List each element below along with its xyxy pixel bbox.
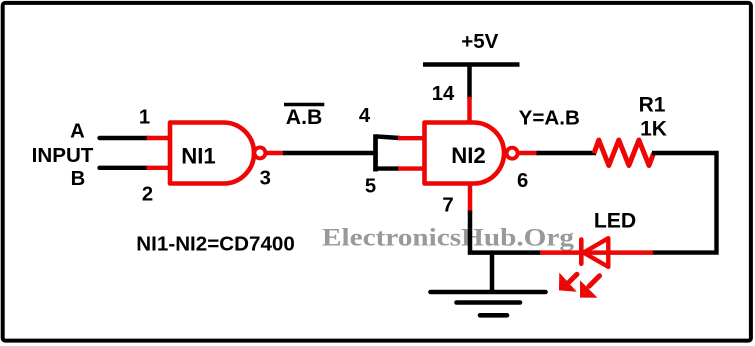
power rail bar — [423, 62, 520, 67]
wire input A to NI1 pin 1 — [100, 136, 173, 140]
pin label 5 — [365, 176, 376, 198]
wire NI1 output to fork — [266, 151, 378, 155]
svg-text:1: 1 — [139, 107, 150, 129]
wire LED branch (red segment) — [540, 250, 653, 255]
pin label 14 — [432, 83, 455, 105]
pin label 2 — [142, 184, 153, 206]
node B (input label) — [71, 168, 86, 190]
node A (input label) — [70, 121, 85, 143]
svg-text:LED: LED — [594, 209, 636, 232]
caption NI1-NI2=CD7400 — [136, 234, 294, 256]
wire input B to NI1 pin 2 — [100, 166, 173, 170]
svg-text:A.B: A.B — [286, 106, 323, 129]
wire fork to NI2 pins 4 and 5 — [376, 134, 427, 171]
svg-text:1K: 1K — [640, 118, 667, 141]
svg-text:NI1: NI1 — [181, 144, 216, 169]
svg-text:7: 7 — [442, 194, 453, 216]
svg-text:3: 3 — [260, 168, 271, 190]
wire pin 14 (VCC) — [467, 65, 472, 125]
pin label 6 — [517, 170, 528, 192]
svg-text:ElectronicsHub.Org: ElectronicsHub.Org — [322, 225, 575, 252]
pin label 4 — [359, 105, 371, 127]
label 1K — [640, 118, 667, 141]
pin label 3 — [260, 168, 271, 190]
watermark ElectronicsHub.Org — [322, 225, 575, 252]
svg-text:Y=A.B: Y=A.B — [519, 106, 580, 129]
wire NI2 pin 7 down to ground node — [470, 183, 542, 253]
svg-text:A: A — [70, 121, 85, 143]
pin label 1 — [139, 107, 150, 129]
net label A.B (NI1 output, overline) — [284, 105, 324, 130]
ground — [431, 253, 546, 316]
pin label 7 — [442, 194, 453, 216]
svg-text:2: 2 — [142, 184, 153, 206]
LED emission arrows — [559, 273, 600, 298]
svg-text:NI2: NI2 — [451, 143, 486, 168]
wire resistor to right corner down to LED anode — [651, 153, 717, 253]
LED D1 symbol — [581, 238, 608, 267]
svg-text:+5V: +5V — [461, 30, 498, 53]
label R1 — [639, 93, 666, 116]
svg-text:14: 14 — [432, 83, 455, 105]
svg-text:5: 5 — [365, 176, 376, 198]
wire NI2 output (Y) to resistor — [517, 151, 596, 155]
svg-text:INPUT: INPUT — [32, 144, 94, 167]
power +5V label — [461, 30, 498, 53]
svg-text:B: B — [71, 168, 86, 190]
NAND gate NI2 — [425, 123, 518, 184]
label INPUT — [32, 144, 94, 167]
resistor R1 zigzag — [594, 140, 654, 166]
svg-text:4: 4 — [359, 105, 371, 127]
net label Y=A.B — [519, 106, 580, 129]
svg-text:6: 6 — [517, 170, 528, 192]
NAND gate NI1 — [170, 123, 265, 184]
svg-text:R1: R1 — [639, 93, 666, 116]
svg-text:NI1-NI2=CD7400: NI1-NI2=CD7400 — [136, 234, 294, 256]
label LED — [594, 209, 636, 232]
